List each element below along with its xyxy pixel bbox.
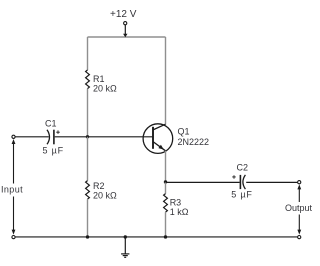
capacitor C1 (47, 130, 60, 145)
wire: R2 to bottom rail (87, 199, 89, 237)
svg-text:+12 V: +12 V (110, 9, 137, 20)
wire: left branch between R1 and base node (87, 89, 89, 137)
wire: C1 to base node and on to transistor base (55, 136, 153, 138)
node: bottom rail / R2 junction (86, 235, 89, 238)
wire: collector branch from rail to transistor (165, 37, 167, 125)
label Input (1, 184, 23, 194)
wire: bottom rail (15, 236, 297, 238)
label C2 (237, 163, 249, 173)
svg-text:Input: Input (1, 184, 23, 194)
wire: emitter to emitter node (165, 151, 167, 182)
resistor R1 (86, 70, 90, 89)
label C1 (45, 118, 57, 128)
ground (121, 237, 129, 257)
svg-text:1 kΩ: 1 kΩ (170, 207, 189, 217)
label Output (285, 203, 313, 213)
wire: C2 to output terminal (246, 181, 297, 183)
node: emitter junction (164, 180, 167, 183)
label Q1 (178, 126, 190, 136)
svg-text:20 kΩ: 20 kΩ (93, 83, 117, 93)
value 5 µF (231, 190, 252, 200)
wire: R3 to bottom rail (165, 212, 167, 237)
wire: top supply rail from R1 branch to collector branch (88, 36, 166, 38)
output span arrow (297, 184, 301, 234)
svg-text:20 kΩ: 20 kΩ (93, 190, 117, 200)
svg-text:C2: C2 (237, 163, 249, 173)
input terminal (top) (12, 135, 15, 138)
supply terminal +12 V (123, 22, 127, 38)
value 5 µF (43, 146, 64, 156)
node: bottom rail / ground junction (124, 235, 127, 238)
label R2 (93, 181, 105, 191)
wire: emitter node to R3 (165, 182, 167, 194)
svg-text:2N2222: 2N2222 (178, 137, 210, 147)
svg-text:Q1: Q1 (178, 126, 190, 136)
svg-text:R2: R2 (93, 181, 105, 191)
node: base junction (86, 135, 89, 138)
wire: left branch base node to R2 (87, 137, 89, 181)
resistor R3 (164, 194, 168, 213)
svg-text:5 µF: 5 µF (231, 190, 252, 200)
output terminal (bottom) (298, 236, 301, 239)
value 20 kΩ (93, 83, 117, 93)
resistor R2 (86, 181, 90, 200)
capacitor C2 (232, 175, 245, 189)
value label +12 V (110, 9, 137, 20)
transistor Q1 (143, 124, 173, 154)
value 2N2222 (178, 137, 210, 147)
svg-text:R3: R3 (170, 197, 182, 207)
label R1 (93, 74, 105, 84)
node: bottom rail / R3 junction (164, 235, 167, 238)
value 1 kΩ (170, 207, 189, 217)
svg-text:5 µF: 5 µF (43, 146, 64, 156)
wire: emitter node to C2 (166, 181, 240, 183)
input span arrow (12, 139, 16, 235)
svg-text:R1: R1 (93, 74, 105, 84)
svg-text:C1: C1 (45, 118, 57, 128)
wire: input to C1 (15, 136, 49, 138)
wire: left branch top (rail to R1) (87, 37, 89, 70)
output terminal (top) (298, 181, 301, 184)
value 20 kΩ (93, 190, 117, 200)
label R3 (170, 197, 182, 207)
input terminal (bottom) (12, 236, 15, 239)
svg-text:Output: Output (285, 203, 313, 213)
